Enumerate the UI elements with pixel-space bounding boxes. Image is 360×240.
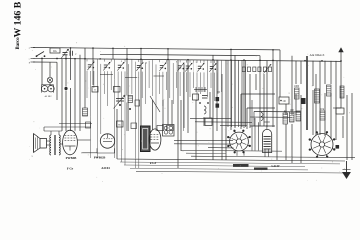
svg-text:F.Gr: F.Gr [150, 161, 157, 165]
svg-text:A2104: A2104 [101, 166, 110, 170]
svg-text:2a: 2a [108, 64, 110, 66]
svg-text:40 1B2: 40 1B2 [45, 95, 53, 98]
svg-text:W 146 B: W 146 B [13, 1, 24, 37]
svg-text:F Gr: F Gr [67, 166, 74, 170]
svg-text:PWB4B: PWB4B [66, 156, 77, 160]
svg-text:1000: 1000 [294, 85, 300, 88]
svg-text:PWBGB: PWBGB [94, 155, 106, 159]
svg-text:1D: 1D [282, 100, 285, 103]
svg-text:Ant 60Ω=Z: Ant 60Ω=Z [310, 53, 325, 57]
svg-text:Barco: Barco [16, 37, 21, 50]
svg-text:2: 2 [288, 93, 289, 95]
svg-text:RG: RG [53, 50, 57, 53]
svg-text:RG: RG [118, 125, 122, 127]
svg-text:e: e [29, 57, 30, 60]
svg-text:C.KW: C.KW [271, 164, 279, 168]
